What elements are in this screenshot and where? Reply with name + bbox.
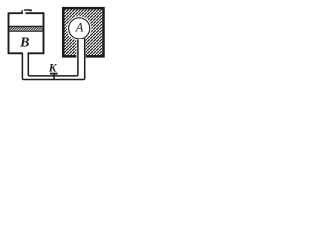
spherical cavity A (69, 18, 90, 39)
pipe upper line: B stem right wall, pipe top, A stem left wall (28, 39, 78, 76)
cylinder B right wall (43, 13, 45, 54)
valve K handle (50, 73, 58, 75)
cylinder B left wall (8, 13, 10, 54)
piston in cylinder B (hatched) (9, 27, 42, 32)
cylinder B rim tab (raised lip) (24, 10, 31, 12)
cylinder B bottom left segment (8, 52, 23, 54)
svg-text:A: A (75, 21, 84, 35)
white margin around cavity (67, 16, 92, 41)
cylinder B bottom right segment (28, 52, 45, 54)
svg-text:B: B (19, 36, 29, 51)
cylinder B top rim right segment (26, 12, 45, 14)
cylinder B rim lip hook (21, 10, 23, 14)
valve K stem (53, 74, 55, 80)
pipe lower line: B stem left wall, pipe bottom, A stem right wall (22, 38, 84, 79)
background (0, 0, 113, 96)
vessel A hatched block with border (63, 8, 103, 56)
cylinder B top rim left segment (8, 12, 22, 14)
white channel for A outlet through hatch and border (76, 39, 85, 59)
svg-text:K: K (48, 61, 58, 74)
